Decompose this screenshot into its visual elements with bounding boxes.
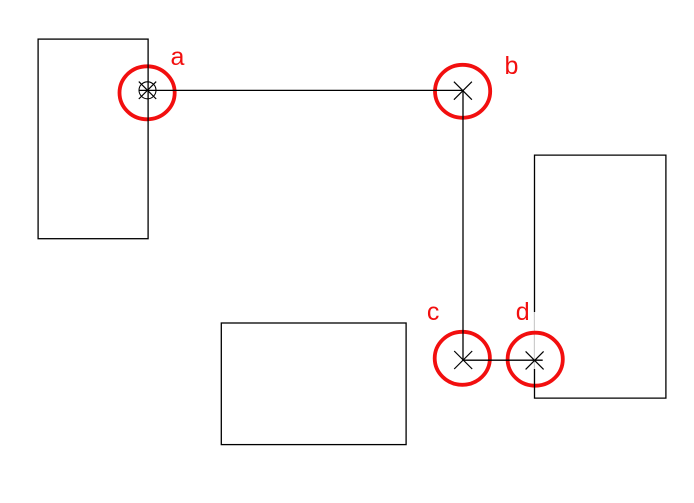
node a X mark bbox=[139, 82, 156, 99]
node c red circle bbox=[435, 332, 490, 385]
node a red circle bbox=[120, 66, 175, 119]
box 1 top-left rectangle bbox=[38, 39, 148, 239]
box 3 right rectangle with gap in left edge bbox=[535, 155, 666, 398]
wire b-c vertical bbox=[462, 90, 464, 360]
wire a-b horizontal bbox=[139, 89, 463, 91]
node a small circle bbox=[139, 82, 156, 99]
svg-text:c: c bbox=[427, 298, 440, 326]
svg-text:b: b bbox=[505, 52, 519, 80]
node c X mark bbox=[454, 351, 472, 369]
node b red circle bbox=[435, 65, 490, 118]
node d red circle bbox=[508, 333, 563, 386]
gray guide line segment at node d bbox=[533, 312, 535, 388]
box 2 bottom-middle rectangle bbox=[221, 323, 406, 445]
wire c-d horizontal bbox=[463, 359, 543, 361]
node d X mark bbox=[526, 351, 544, 369]
svg-text:a: a bbox=[171, 43, 185, 71]
node b X mark bbox=[454, 82, 472, 100]
svg-text:d: d bbox=[516, 298, 530, 326]
